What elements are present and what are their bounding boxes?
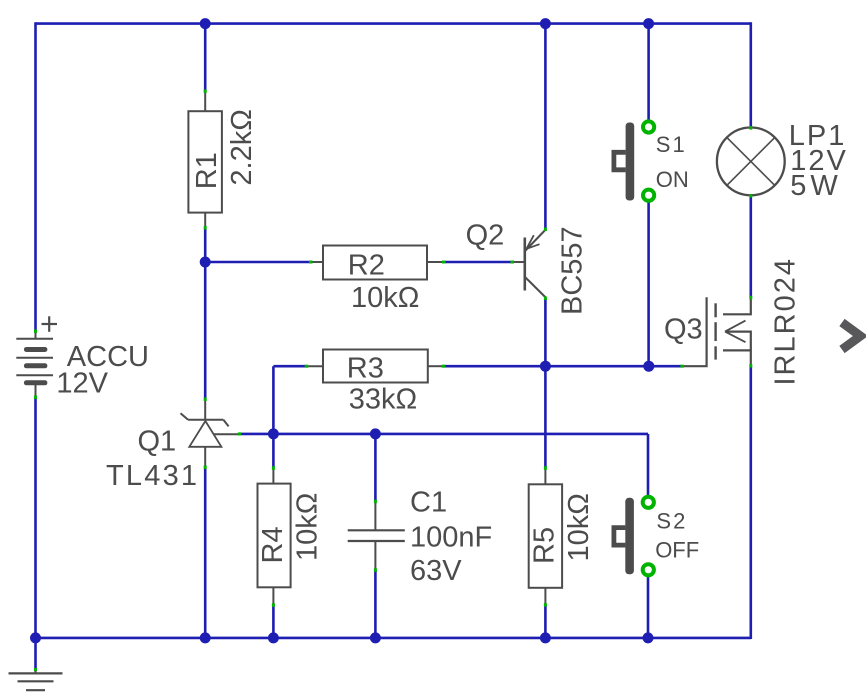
svg-text:TL431: TL431: [106, 460, 199, 492]
transistor Q2 BC557: [466, 219, 589, 315]
lamp LP1: [717, 120, 848, 202]
svg-text:S1: S1: [656, 132, 687, 157]
battery thick plates: [26, 350, 45, 383]
pushbutton S2: [614, 497, 699, 576]
svg-text:BC557: BC557: [557, 226, 589, 315]
wire Q1 anode to bottom rail: [204, 467, 207, 638]
wire bottom rail: [36, 637, 751, 640]
wire battery to bottom rail: [34, 397, 37, 639]
wire C1 column: [374, 434, 377, 501]
resistor R3: [306, 350, 443, 416]
wire C1 bottom: [374, 570, 377, 638]
ui chevron next: [842, 323, 861, 350]
svg-text:IRLR024: IRLR024: [770, 257, 802, 385]
node top rail S1: [643, 18, 654, 29]
node gate row S1: [643, 361, 654, 372]
wire base row left: [205, 261, 311, 264]
node bottom rail R5: [540, 632, 551, 643]
svg-text:10kΩ: 10kΩ: [563, 493, 595, 561]
svg-text:33kΩ: 33kΩ: [349, 384, 417, 416]
wire R1 column top: [204, 24, 207, 92]
battery long plates: [16, 339, 53, 376]
node gate row collector: [540, 361, 551, 372]
svg-text:10kΩ: 10kΩ: [351, 282, 419, 314]
capacitor C1: [348, 487, 493, 588]
pin mark green dots: [34, 90, 752, 672]
wire R4 bottom: [272, 605, 275, 638]
wire Q3 source to bottom rail: [749, 366, 752, 640]
svg-text:12V: 12V: [56, 368, 108, 400]
pushbutton S1: [614, 121, 689, 200]
wire R4 column: [272, 434, 275, 468]
svg-text:5W: 5W: [790, 170, 842, 202]
wire R3 left bend down: [272, 366, 275, 434]
svg-text:2.2kΩ: 2.2kΩ: [226, 109, 258, 186]
svg-text:100nF: 100nF: [410, 522, 492, 554]
wire left rail down to battery: [34, 22, 37, 331]
svg-text:R4: R4: [257, 526, 289, 563]
svg-text:ON: ON: [656, 167, 689, 192]
node base row R1: [200, 257, 211, 268]
wire lamp column top: [749, 22, 752, 127]
ground: [9, 668, 63, 690]
mosfet Q3 IRLR024: [664, 257, 802, 385]
resistor R2: [311, 246, 444, 315]
resistor R4: [257, 468, 324, 605]
wire S1 to gate junction: [647, 202, 650, 366]
node bottom rail ground: [30, 632, 41, 643]
battery plus sign: [42, 316, 58, 332]
wire R3 left lead: [273, 365, 306, 368]
svg-text:S2: S2: [656, 509, 687, 534]
node ref row R4: [268, 428, 279, 439]
wire top rail: [36, 22, 752, 25]
wire R5 bottom: [544, 605, 547, 638]
resistor R1: [188, 92, 258, 229]
node ref row C1: [370, 428, 381, 439]
node bottom rail C1: [370, 632, 381, 643]
svg-text:R5: R5: [529, 527, 561, 564]
svg-text:R1: R1: [191, 152, 223, 189]
svg-text:Q2: Q2: [466, 219, 505, 251]
wire ref row: [239, 433, 648, 436]
wire base row right: [444, 261, 513, 264]
svg-text:10kΩ: 10kΩ: [292, 493, 324, 561]
wire junction to Q1 cathode: [204, 262, 207, 399]
wire S1 column top: [647, 24, 650, 120]
wire lamp to Q3 drain: [749, 196, 752, 298]
node bottom rail R4: [268, 632, 279, 643]
wire R3 row right: [443, 365, 682, 368]
resistor R5: [529, 468, 596, 605]
svg-text:Q1: Q1: [138, 426, 177, 458]
wire emitter column: [544, 24, 547, 229]
svg-text:C1: C1: [410, 487, 447, 519]
wire ground stub: [34, 638, 37, 669]
wire ref row bend to S2: [647, 434, 650, 495]
svg-text:OFF: OFF: [655, 538, 699, 563]
svg-text:63V: 63V: [410, 555, 462, 587]
svg-text:R3: R3: [347, 353, 384, 385]
wire collector column: [544, 298, 547, 468]
node bottom rail S2: [643, 632, 654, 643]
svg-text:Q3: Q3: [664, 314, 703, 346]
shunt regulator Q1 TL431: [106, 399, 239, 492]
wire S2 bottom: [647, 577, 650, 638]
svg-text:R2: R2: [348, 250, 385, 282]
wire R1 bottom to base-row junction: [204, 228, 207, 262]
node bottom rail Q1: [200, 632, 211, 643]
node top rail emitter: [540, 18, 551, 29]
node top rail R1: [200, 18, 211, 29]
battery BAT pins: [35, 331, 37, 397]
